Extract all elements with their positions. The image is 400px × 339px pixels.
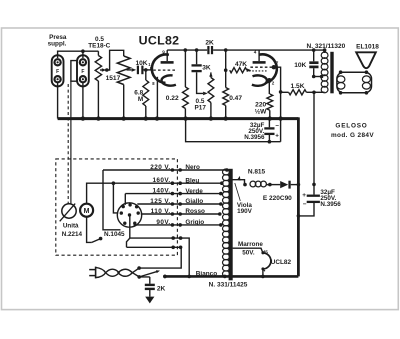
svg-text:2K: 2K (205, 39, 214, 46)
tap line 125 V. Giallo (137, 203, 221, 205)
svg-text:160V.: 160V. (152, 177, 170, 184)
wire 160V to selector (113, 183, 118, 213)
node 47K junction (224, 68, 228, 72)
transformer T1 secondary loop (337, 72, 372, 93)
svg-text:190V: 190V (237, 208, 253, 215)
wire top rail right (213, 49, 325, 51)
wiper output line (130, 238, 189, 276)
wire F2 bottom to bus (82, 83, 84, 119)
potentiometer 0.5 P17 (209, 72, 212, 76)
svg-text:N. 331/11425: N. 331/11425 (209, 281, 248, 288)
heater UCL82 (261, 251, 264, 254)
junction grid wire bus (278, 116, 282, 120)
svg-text:M: M (138, 96, 143, 103)
node wiper TE18C (105, 68, 109, 72)
junction diode B+ (297, 183, 301, 187)
junction 0.47 bus (224, 116, 228, 120)
tube V1b envelope (259, 54, 277, 82)
svg-text:220 V.: 220 V. (150, 164, 170, 171)
wire motor top (87, 183, 114, 204)
svg-text:140V.: 140V. (152, 188, 170, 195)
wire cap to grid (142, 69, 151, 71)
junction 1.5K right (312, 91, 316, 95)
svg-text:Grigio: Grigio (185, 219, 204, 226)
wire return lower rect (186, 119, 281, 142)
junction 1517 bus (122, 116, 126, 120)
svg-text:7: 7 (276, 60, 279, 65)
capacitor 2K line (149, 277, 151, 284)
junction P17 bus (209, 116, 213, 120)
bottom return line (165, 275, 299, 278)
svg-text:Giallo: Giallo (185, 198, 203, 205)
inductor N.815 (243, 183, 247, 187)
transformer T1 core (330, 52, 333, 94)
twisted cord (106, 269, 120, 276)
svg-text:8: 8 (152, 81, 155, 86)
junction switch contact (163, 275, 167, 279)
node 10K cap top (312, 48, 316, 52)
B+ thick vertical (297, 117, 300, 276)
ground symbol (145, 297, 154, 304)
capacitor 32uF C2 (268, 119, 270, 128)
wire wiper jumper over (107, 50, 124, 70)
junction 6.8M bus (144, 116, 148, 120)
svg-text:EL1018: EL1018 (356, 43, 379, 50)
svg-text:Verde: Verde (185, 188, 203, 195)
resistor 0.22 (184, 50, 186, 87)
svg-text:2: 2 (272, 80, 275, 85)
tube V1b grid1 (249, 70, 268, 72)
tube V1b anode (253, 61, 266, 64)
resistor 0.5 TE18-C (95, 56, 101, 82)
wiper arrow TE18C (100, 69, 102, 71)
tap line 110 V. Rosso (141, 213, 220, 215)
junction TE18C bus (96, 116, 100, 120)
svg-text:Bianco: Bianco (196, 271, 217, 278)
wire pentode cathode down (267, 78, 272, 83)
svg-text:0.47: 0.47 (229, 95, 242, 102)
tube V1a envelope (152, 55, 169, 83)
wire cord upper (132, 268, 139, 273)
ground bus (58, 117, 299, 120)
resistor 47K (230, 68, 247, 73)
potentiometer 1517 (117, 56, 130, 85)
junction 0.22 bus (183, 116, 187, 120)
junction cap return (297, 214, 301, 218)
wire heater down (262, 269, 264, 277)
selector contacts (122, 205, 125, 208)
capacitor 10K (137, 66, 139, 75)
svg-text:M: M (84, 208, 90, 215)
svg-text:−: − (303, 201, 307, 208)
svg-text:125 V.: 125 V. (150, 198, 170, 205)
wire anode tap (230, 180, 245, 185)
tube V1a cathode (162, 75, 176, 85)
node 1.5K junction (279, 90, 283, 94)
wire primary bottom (314, 91, 325, 93)
resistor 1.5K (281, 91, 289, 93)
wire F1 bottom to bus (57, 83, 59, 119)
node cap top (312, 183, 316, 187)
link dashed (67, 84, 69, 204)
wire cord lower (132, 273, 149, 277)
svg-text:N.1045: N.1045 (104, 231, 125, 238)
svg-text:4: 4 (254, 50, 257, 55)
line2 (127, 238, 130, 247)
wire grid2 right (274, 67, 281, 142)
fuse socket F2 (77, 55, 89, 86)
svg-text:UCL82: UCL82 (139, 34, 180, 48)
transformer T1 primary (321, 52, 328, 58)
junction cathode bus (155, 116, 159, 120)
svg-text:mod. G 284V: mod. G 284V (331, 132, 374, 139)
tube V1b grid2 (250, 66, 273, 68)
svg-text:Marrone: Marrone (238, 241, 263, 248)
junction F2 bus (81, 116, 85, 120)
svg-text:Unità: Unità (63, 223, 79, 230)
tap line 160V. Bleu (113, 182, 221, 184)
svg-text:50V.: 50V. (242, 249, 255, 256)
wire motor bottom switch (87, 217, 92, 243)
svg-text:9: 9 (162, 50, 165, 55)
wire cathode to bus (156, 77, 158, 119)
motor M (80, 204, 93, 217)
wire 220V to selector (103, 170, 121, 230)
svg-text:P17: P17 (195, 104, 207, 111)
svg-text:0.22: 0.22 (166, 95, 179, 102)
junction 220 bus (268, 116, 272, 120)
svg-text:TE18-C: TE18-C (88, 43, 110, 50)
svg-text:−: − (275, 122, 279, 129)
tap line 140V. Verde (125, 193, 221, 195)
svg-text:+: + (275, 133, 279, 140)
transformer T2 winding (223, 169, 230, 175)
junction heater bottom (261, 275, 265, 279)
arrow tap (237, 176, 240, 181)
mains switch (141, 271, 158, 276)
capacitor 10K right (313, 50, 315, 61)
wire link solid (70, 81, 72, 204)
svg-text:E 220C90: E 220C90 (263, 195, 292, 202)
bracket on F2 (71, 61, 77, 82)
wire top rail left (167, 49, 207, 51)
dashed unit box (56, 159, 178, 255)
selector wiper (129, 215, 131, 238)
node grid2 rim (272, 65, 276, 69)
wire 140V to selector (124, 194, 126, 205)
svg-text:Bleu: Bleu (185, 177, 199, 184)
svg-text:½W: ½W (255, 107, 267, 115)
svg-text:UCL82: UCL82 (271, 259, 292, 266)
wire Marrone tap (233, 248, 263, 253)
wire fuse tops (58, 51, 99, 58)
svg-text:N. 321/11320: N. 321/11320 (307, 43, 346, 50)
resistor 6.8M (145, 70, 147, 80)
svg-text:N.2214: N.2214 (62, 231, 83, 238)
junction cap lower (268, 140, 272, 144)
capacitor 32uF C3 (313, 184, 315, 194)
tube V1a grid (153, 69, 177, 71)
svg-text:F: F (56, 69, 59, 75)
transformer T2 core (229, 169, 233, 280)
junction fuse2 top (81, 49, 85, 53)
svg-text:90V.: 90V. (156, 219, 170, 226)
mains plug (89, 269, 95, 271)
unit N.2214 circle (62, 204, 76, 218)
svg-text:GELOSO: GELOSO (335, 122, 367, 129)
diode E220C90 (280, 181, 288, 188)
svg-text:N.815: N.815 (248, 169, 266, 176)
svg-text:F: F (81, 69, 84, 75)
svg-text:N.3956: N.3956 (244, 134, 265, 141)
node 0.22 top (184, 48, 188, 52)
junction Bianco coil bottom (223, 275, 227, 279)
selector circle (117, 203, 141, 227)
resistor 220 (267, 94, 273, 110)
svg-text:+: + (302, 192, 306, 199)
arrow 3K to pot (203, 92, 208, 96)
svg-text:suppl.: suppl. (48, 41, 67, 48)
speaker EL1018 cone (356, 52, 376, 68)
node grid junction (144, 68, 148, 72)
wiper arrow 1517 (127, 69, 132, 71)
capacitor 3K (196, 50, 198, 64)
svg-text:110 V.: 110 V. (151, 208, 171, 215)
node 3K top (195, 48, 199, 52)
tap line 220 V. Nero (103, 169, 227, 171)
tap line 90V. Grigio (134, 224, 221, 226)
tube V1a anode (161, 61, 174, 64)
svg-text:3K: 3K (202, 65, 211, 72)
resistor 0.47 (225, 50, 227, 87)
svg-text:Nero: Nero (185, 164, 200, 171)
svg-text:N.3956: N.3956 (320, 201, 341, 208)
leader Viola (235, 183, 241, 201)
wire B+ down (313, 92, 315, 184)
tube V1b cathode (252, 75, 267, 85)
svg-text:Rosso: Rosso (185, 208, 205, 215)
fuse socket F1 (Presa suppl.) (52, 55, 64, 86)
node 0.47 top (224, 48, 228, 52)
wire cap to primary tap (314, 76, 322, 78)
svg-text:2K: 2K (157, 286, 166, 293)
svg-text:10K: 10K (294, 62, 306, 69)
